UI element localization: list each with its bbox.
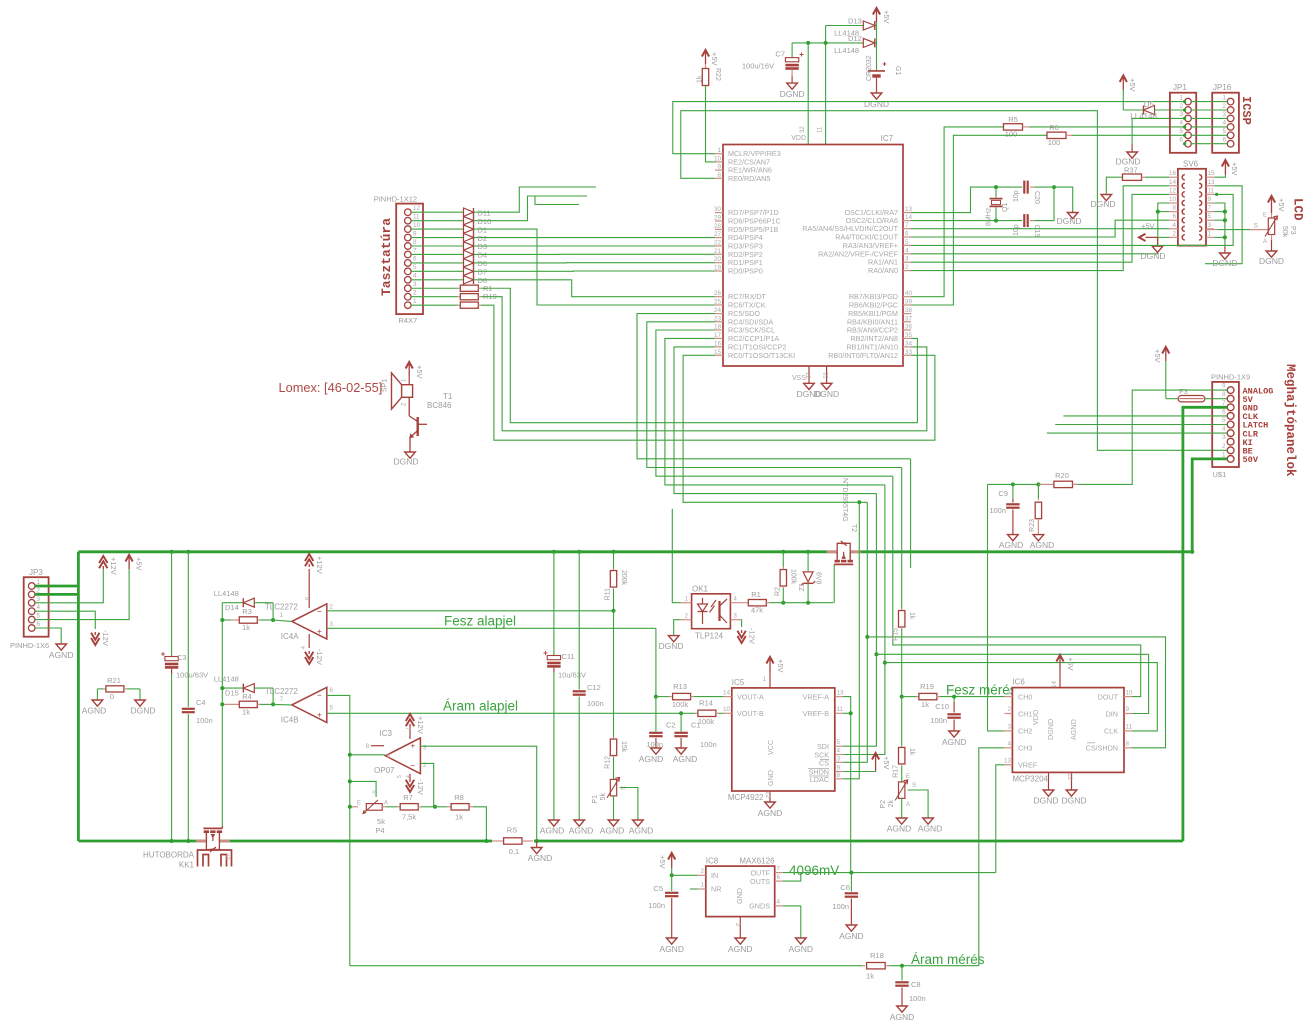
IC6 pin 8 CS SHDN: [1124, 747, 1132, 749]
wire JP1 pin2 to JP16 pin2: [1191, 109, 1227, 111]
svg-text:10: 10: [413, 222, 421, 229]
svg-text:4: 4: [837, 748, 841, 755]
wire IC3 noninverting to RS sense: [420, 746, 536, 841]
svg-text:JP1: JP1: [1173, 83, 1187, 92]
svg-text:6: 6: [1172, 213, 1176, 220]
svg-text:1k: 1k: [908, 748, 915, 756]
svg-text:13: 13: [1004, 758, 1012, 765]
wire CLR pin: [1047, 432, 1227, 434]
wire bus to R15: [901, 468, 903, 609]
power +5V at speaker: [408, 364, 410, 378]
wire SHDN to +5V: [843, 771, 876, 773]
svg-text:Tasztatúra: Tasztatúra: [379, 218, 394, 296]
svg-text:BC846: BC846: [427, 401, 452, 410]
svg-text:S: S: [373, 790, 379, 794]
wire RA5 to SV6 pin4: [911, 228, 1169, 230]
svg-text:C12: C12: [587, 683, 601, 692]
wire R5 to ICSP pin4: [1029, 126, 1185, 128]
resistor R5: [1004, 124, 1023, 130]
svg-text:-12V: -12V: [101, 630, 110, 646]
power +5V at IC6: [1059, 657, 1061, 671]
svg-text:IC4A: IC4A: [281, 632, 299, 641]
wire Fesz alapjel net: [327, 627, 656, 629]
battery G1 CR2032: [876, 22, 878, 71]
power +5V at ICSP: [1122, 77, 1124, 90]
IC7 pin 3 RA1/AN1: [903, 261, 911, 263]
svg-text:1k: 1k: [697, 75, 704, 83]
svg-text:4: 4: [37, 604, 41, 611]
svg-text:16: 16: [714, 340, 722, 347]
svg-text:CS/SHDN: CS/SHDN: [1086, 744, 1118, 753]
svg-text:S: S: [1254, 223, 1259, 230]
resistor R13 100k: [654, 695, 658, 699]
resistor R11 200k: [612, 550, 616, 554]
svg-text:ICSP: ICSP: [1239, 96, 1253, 125]
svg-text:A: A: [1263, 239, 1267, 245]
svg-text:D14: D14: [225, 603, 239, 612]
ground AGND under C2: [651, 748, 662, 754]
wire gate node to output MOSFET: [221, 704, 223, 815]
svg-text:R37: R37: [1124, 166, 1138, 175]
op-amp IC4B TLC2272: [292, 687, 327, 722]
SV6 pin 6 left: [1169, 219, 1178, 221]
svg-text:IC5: IC5: [732, 678, 745, 687]
ground DGND at R37: [1101, 195, 1112, 201]
ground AGND under C6: [846, 925, 857, 931]
IC7 pin 40 RB7/KBI3/PGD: [903, 296, 911, 298]
op IC8 MAX6126 reference: [706, 866, 775, 917]
IC7 pin 18 RC3/SCK/SCL: [715, 329, 723, 331]
svg-text:R2: R2: [775, 587, 782, 596]
svg-text:8: 8: [413, 239, 417, 246]
SV6 pin 8 left: [1169, 211, 1178, 213]
svg-text:LL4148: LL4148: [214, 675, 239, 684]
diode D14: [222, 602, 243, 604]
IC7 VSS pins: [808, 366, 810, 383]
transistor output pmos on bottom rail: [221, 816, 223, 827]
svg-text:5: 5: [397, 775, 403, 778]
IC5 pin 13 VREF-A: [835, 696, 843, 698]
svg-text:1k: 1k: [921, 700, 929, 709]
svg-text:5: 5: [37, 613, 41, 620]
ground AGND under IC6: [1066, 790, 1077, 796]
svg-text:6: 6: [1222, 137, 1226, 144]
IC6 pin 13 VREF: [1004, 764, 1012, 766]
SV6 pin 15 right: [1206, 176, 1214, 178]
svg-text:1: 1: [1222, 94, 1226, 101]
svg-text:1: 1: [762, 676, 766, 683]
svg-text:0,1: 0,1: [509, 847, 519, 856]
IC7 pin 24 RC5/SDO: [715, 313, 723, 315]
wire CS branch to IC6: [867, 637, 1165, 748]
SV6 pin 3 right: [1206, 228, 1214, 230]
svg-text:P1: P1: [592, 795, 599, 804]
svg-text:7: 7: [413, 247, 417, 254]
resistor R2 100k: [781, 550, 785, 554]
svg-text:CH0: CH0: [1018, 693, 1032, 702]
wire OUTS join: [783, 873, 801, 882]
resistor R1 47k: [741, 602, 748, 604]
svg-text:9: 9: [837, 765, 841, 772]
svg-text:DGND: DGND: [658, 641, 683, 651]
connector PINHD-1X9 Meghajtopanelok: [1212, 382, 1239, 467]
svg-text:TLC2272: TLC2272: [265, 687, 298, 696]
wire P2 wiper to AGND: [908, 790, 929, 818]
SV6 pin 7 right: [1206, 211, 1214, 213]
svg-text:1: 1: [413, 298, 417, 305]
ground AGND at RS: [536, 841, 538, 848]
svg-text:AGND: AGND: [887, 824, 912, 834]
svg-text:R14: R14: [699, 699, 713, 708]
wire RA4 to SV6 pin6: [911, 220, 1169, 237]
IC7 pin 37 RB4/KBI0/AN11: [903, 321, 911, 323]
svg-text:IC4B: IC4B: [281, 716, 299, 725]
diode D4 keyboard row: [411, 253, 464, 255]
svg-text:1: 1: [1222, 451, 1226, 458]
svg-text:CH2: CH2: [1018, 727, 1032, 736]
IC5 pin 11 VREF-B: [835, 712, 843, 714]
svg-text:2: 2: [1222, 443, 1226, 450]
IC7 pin 26 RC7/RX/DT: [715, 296, 723, 298]
svg-text:2: 2: [1007, 706, 1011, 713]
svg-text:200k: 200k: [620, 570, 627, 586]
resistor R21: [97, 688, 103, 690]
wire keyboard row10 to RB2: [481, 288, 917, 422]
wire CLK pin: [1063, 415, 1227, 417]
svg-text:7: 7: [777, 866, 781, 873]
wire IC4B output: [273, 703, 292, 706]
resistor RS shunt: [492, 839, 534, 844]
IC5 pin 8 LDAC: [835, 778, 843, 780]
wire JP3 pin6 to AGND: [35, 628, 61, 644]
svg-text:1: 1: [700, 882, 704, 889]
svg-text:5: 5: [1222, 128, 1226, 135]
svg-text:GND: GND: [735, 888, 744, 904]
wire bottom rail thick: [78, 840, 1183, 843]
wire R37 to DGND: [1106, 177, 1114, 194]
svg-text:+5V: +5V: [1141, 222, 1155, 231]
SV6 pin 5 right: [1206, 219, 1214, 221]
svg-text:IC6: IC6: [1012, 678, 1025, 687]
svg-text:100u/16V: 100u/16V: [742, 62, 774, 71]
wire D6 to RD1: [479, 262, 715, 264]
svg-text:DGND: DGND: [1212, 258, 1237, 268]
svg-text:18: 18: [714, 324, 722, 331]
svg-text:4: 4: [777, 899, 781, 906]
wire MCLR to ICSP: [673, 102, 1185, 154]
diode D11 keyboard row: [411, 211, 464, 213]
resistor R8: [435, 806, 447, 808]
ground AGND at P2 wiper: [923, 818, 934, 824]
wire R21 left to AGND: [96, 689, 98, 700]
IC7 pin 10 RE2/CS/AN7: [715, 161, 723, 163]
svg-text:−: −: [410, 761, 415, 771]
svg-text:E: E: [1263, 213, 1267, 219]
svg-text:AGND: AGND: [728, 944, 753, 954]
svg-text:RD0/PSP0: RD0/PSP0: [728, 267, 763, 276]
ground AGND under C12: [574, 820, 585, 826]
svg-text:50k: 50k: [1281, 226, 1288, 238]
IC5 pin 5 SDI: [835, 745, 843, 747]
wire keyboard row1 stub: [479, 187, 596, 212]
svg-text:12: 12: [764, 791, 771, 799]
IC5 pin 1 VCC: [769, 672, 771, 688]
svg-text:23: 23: [714, 315, 722, 322]
svg-text:100n: 100n: [832, 902, 849, 911]
wire left rail thick: [77, 552, 80, 841]
wire 50V pin thick: [1192, 459, 1227, 552]
svg-text:1k: 1k: [908, 612, 915, 620]
wire RC bus line 6: [683, 355, 867, 502]
svg-text:Lomex: [46-02-55]: Lomex: [46-02-55]: [279, 380, 383, 395]
IC7 pin 30 RD7/PSP7/P1D: [715, 212, 723, 214]
diode D6 keyboard row: [411, 262, 464, 264]
ground AGND under C11: [549, 820, 560, 826]
svg-text:9: 9: [1222, 383, 1226, 390]
ground AGND under C1: [676, 748, 687, 754]
wire JP1 pin5 to JP16 pin5: [1191, 134, 1227, 136]
capacitor C5 100n: [671, 875, 673, 891]
svg-text:AGND: AGND: [82, 706, 107, 716]
wire D3 to RD3: [479, 245, 715, 247]
SV6 pin 10 left: [1169, 202, 1178, 204]
svg-text:C9: C9: [998, 489, 1008, 498]
capacitor C2 100n: [655, 697, 657, 732]
svg-text:AGND: AGND: [540, 826, 565, 836]
IC6 pin 14 VDD: [1059, 670, 1061, 688]
ground AGND at P1 wiper: [633, 820, 644, 826]
wire RC bus line 5: [674, 347, 876, 494]
wire R37 to SV6 pin16: [1145, 176, 1169, 178]
wire RB6 PGC to R6: [911, 135, 1047, 305]
power arrow +5V for R22: [705, 52, 707, 65]
IC7 pin 9 RE1/WR/AN6: [715, 169, 723, 171]
wire IC6 VREF to 4096mV: [996, 765, 1005, 873]
svg-text:R5: R5: [1008, 115, 1018, 124]
power +12V at IC4A: [308, 569, 310, 608]
svg-text:DGND: DGND: [393, 457, 418, 467]
IC6 pin 4 CH3: [1004, 747, 1012, 749]
svg-text:100k: 100k: [672, 700, 689, 709]
power +5V at IC5 SHDN: [875, 755, 877, 772]
power +5V at IC5: [769, 659, 771, 673]
wire stub row 204: [535, 196, 579, 205]
wire JP1 pin1 to JP16 pin1: [1191, 101, 1227, 103]
svg-text:16: 16: [1169, 170, 1177, 177]
svg-text:5: 5: [905, 239, 909, 246]
resistor R22: [705, 64, 707, 69]
svg-text:14: 14: [1169, 179, 1177, 186]
IC7 pin 27 RD4/PSP4: [715, 237, 723, 239]
op-amp IC4A TLC2272: [292, 604, 327, 639]
svg-text:100k: 100k: [790, 569, 797, 585]
svg-text:4: 4: [413, 273, 417, 280]
svg-text:3: 3: [1208, 222, 1212, 229]
resistor R1 keyboard row 10: [411, 287, 458, 289]
IC7 pin 20 RD1/PSP1: [715, 262, 723, 264]
svg-text:+5V: +5V: [710, 52, 719, 66]
svg-text:VDD: VDD: [791, 135, 806, 142]
svg-text:4: 4: [1222, 120, 1226, 127]
svg-text:6: 6: [777, 874, 781, 881]
optocoupler OK1 TLP124: [692, 594, 731, 629]
wire SDI drop: [843, 494, 877, 747]
svg-text:+5V: +5V: [1153, 349, 1162, 363]
IC7 pin 34 RB1/INT1/AN10: [903, 346, 911, 348]
svg-text:9: 9: [1126, 706, 1130, 713]
svg-text:32: 32: [800, 126, 806, 133]
wire RC bus line 2: [647, 322, 902, 468]
svg-text:U$1: U$1: [1213, 470, 1227, 479]
wire R21 right to DGND: [139, 689, 141, 700]
transistor T1 BC846: [408, 397, 410, 416]
SV6 pin 2 left: [1169, 236, 1178, 238]
svg-text:R19: R19: [920, 682, 934, 691]
svg-text:OP07: OP07: [374, 766, 395, 775]
resistor R20: [1038, 483, 1053, 485]
IC5 pin 3 CS: [835, 761, 843, 763]
svg-text:MAX6126: MAX6126: [739, 857, 775, 866]
capacitor C6 100n: [850, 873, 852, 892]
wire R8 to rail: [473, 807, 486, 841]
power +5V at JP3: [128, 557, 130, 570]
svg-text:T1: T1: [443, 392, 453, 401]
svg-text:C11: C11: [562, 652, 575, 661]
svg-text:4: 4: [1179, 120, 1183, 127]
svg-text:7: 7: [905, 222, 909, 229]
svg-text:AGND: AGND: [569, 826, 594, 836]
IC6 pin 3 CH2: [1004, 730, 1012, 732]
IC6 pin 12 AGND: [1071, 772, 1073, 790]
wire CH2 from R20 C9 node: [988, 484, 1005, 731]
wire OSC2 to crystal: [911, 220, 1022, 222]
diode D12: [792, 42, 863, 44]
svg-text:+: +: [410, 741, 415, 751]
wire SDI branch to IC6 DIN: [876, 654, 1148, 713]
potentiometer P2 2k: [899, 782, 905, 799]
ground DGND under T1: [405, 452, 416, 458]
capacitor C10 100n: [952, 695, 956, 699]
capacitor C8 100n: [901, 966, 903, 981]
svg-text:Meghajtópanelok: Meghajtópanelok: [1283, 364, 1297, 477]
wire SV6 grounded pins chain: [1214, 203, 1225, 247]
svg-text:14: 14: [723, 690, 731, 697]
svg-text:E: E: [906, 774, 910, 780]
power -12V at JP3: [91, 638, 99, 645]
svg-text:8: 8: [837, 772, 841, 779]
ground DGND below SV6 right: [1224, 247, 1226, 254]
resistor R23: [1013, 483, 1039, 485]
svg-text:2: 2: [1179, 103, 1183, 110]
diode D13: [826, 25, 864, 27]
IC6 pin 2 CH1: [1004, 713, 1012, 715]
svg-text:2: 2: [413, 290, 417, 297]
IC5 pin 4 SCK: [835, 754, 843, 756]
svg-text:P4: P4: [375, 826, 384, 835]
power -12V at OK1: [737, 636, 745, 643]
connector PINHD-1X12 keyboard: [396, 204, 423, 315]
svg-text:-12V: -12V: [416, 779, 425, 795]
svg-text:C3: C3: [177, 653, 187, 662]
wire fuse to 5V pin: [1205, 398, 1227, 400]
svg-text:LL4148: LL4148: [834, 46, 859, 55]
SV6 pin 13 right: [1206, 185, 1214, 187]
svg-text:AGND: AGND: [639, 754, 664, 764]
capacitor C4 100n: [186, 550, 190, 554]
svg-text:VOUT-A: VOUT-A: [737, 693, 764, 702]
resistor R3: [222, 619, 231, 621]
SV6 pin 12 left: [1169, 193, 1178, 195]
wire bus stub: [910, 459, 912, 568]
wire IC4A output: [273, 620, 292, 621]
wire JP3 pin4 to -12V: [35, 611, 95, 629]
capacitor C12 100n: [577, 550, 581, 554]
svg-text:R3: R3: [242, 607, 252, 616]
svg-text:2k: 2k: [888, 800, 895, 808]
svg-text:100n: 100n: [700, 740, 717, 749]
svg-text:3: 3: [1179, 111, 1183, 118]
svg-text:R11: R11: [605, 588, 612, 600]
potentiometer P1 5k: [610, 779, 616, 796]
svg-text:+5V: +5V: [1066, 657, 1075, 671]
svg-text:DGND: DGND: [780, 89, 805, 99]
svg-text:DGND: DGND: [1090, 199, 1115, 209]
svg-text:VDD: VDD: [1031, 710, 1040, 725]
resistor R37: [1114, 176, 1123, 178]
svg-text:47k: 47k: [751, 606, 763, 615]
svg-text:17: 17: [714, 332, 722, 339]
wire keyboard row2 stub: [479, 196, 587, 221]
IC7 pin 7 RA5/AN4/SS/HLVDIN/C2OUT: [903, 228, 911, 230]
svg-text:12: 12: [413, 205, 421, 212]
wire +5V to IC8 IN: [672, 868, 698, 875]
speaker SP1: [402, 385, 413, 398]
svg-text:CLK: CLK: [1104, 727, 1118, 736]
svg-text:100u/63V: 100u/63V: [176, 671, 208, 680]
svg-text:5: 5: [1179, 128, 1183, 135]
svg-text:GNDS: GNDS: [749, 902, 770, 911]
svg-text:6: 6: [37, 621, 41, 628]
IC7 pin 39 RB6/KBI2/PGC: [903, 304, 911, 306]
svg-text:RC0/T1OSO/T13CKI: RC0/T1OSO/T13CKI: [728, 351, 795, 360]
svg-text:TLP124: TLP124: [695, 632, 724, 641]
svg-text:P3: P3: [1289, 226, 1296, 235]
IC8 pin 3 GND: [739, 917, 741, 938]
wire JP1 pin3 to JP16 pin3: [1191, 117, 1227, 119]
svg-text:15k: 15k: [620, 741, 627, 753]
svg-text:1: 1: [1007, 690, 1011, 697]
svg-text:6: 6: [1179, 137, 1183, 144]
svg-text:LL4148: LL4148: [214, 589, 239, 598]
SV6 pin 9 right: [1206, 202, 1214, 204]
ground DGND at OK1: [668, 636, 679, 642]
svg-text:PINHD-1X9: PINHD-1X9: [1211, 373, 1250, 382]
wire R22 to RE2 pin: [706, 86, 716, 162]
svg-text:29: 29: [714, 215, 722, 222]
wire RA3 to SV6 pin11: [911, 194, 1233, 245]
svg-text:LL4148: LL4148: [1130, 112, 1157, 121]
wire Aram meres net: [350, 965, 862, 967]
svg-text:R4X7: R4X7: [398, 316, 417, 325]
wire D7 to RD0: [479, 270, 715, 272]
svg-text:30: 30: [714, 206, 722, 213]
IC7 pin 21 RD2/PSP2: [715, 253, 723, 255]
svg-text:4: 4: [905, 247, 909, 254]
svg-text:Fesz mérés: Fesz mérés: [946, 683, 1017, 698]
IC6 pin 10 DOUT: [1124, 696, 1132, 698]
svg-text:2: 2: [1172, 230, 1176, 237]
ground DGND under IC7 VSS 2: [821, 383, 832, 389]
